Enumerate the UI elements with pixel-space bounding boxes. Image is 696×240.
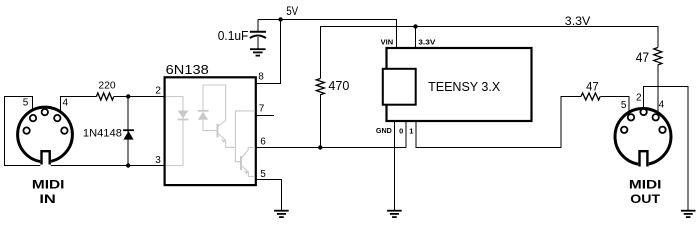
svg-text:3: 3 bbox=[155, 155, 161, 166]
connector J2 MIDI OUT bbox=[615, 92, 671, 206]
svg-text:4: 4 bbox=[659, 99, 665, 110]
internal Vcc rail bbox=[203, 85, 226, 120]
microcontroller U2 TEENSY 3.X bbox=[376, 38, 532, 136]
svg-text:MIDI: MIDI bbox=[32, 177, 65, 191]
svg-text:0.1uF: 0.1uF bbox=[218, 29, 249, 43]
svg-text:47: 47 bbox=[586, 80, 599, 94]
node junction 3.3V/Teensy bbox=[413, 24, 417, 28]
svg-text:5: 5 bbox=[260, 169, 266, 180]
svg-text:220: 220 bbox=[98, 80, 115, 92]
resistor R1 220 bbox=[96, 93, 113, 100]
svg-text:GND: GND bbox=[376, 126, 393, 135]
resistor R3 47 series TX bbox=[581, 93, 600, 100]
wire R470 bottom to pin6 net bbox=[319, 95, 321, 148]
svg-text:2: 2 bbox=[636, 92, 642, 103]
wire 6N138 pin7 stub bbox=[257, 115, 274, 117]
svg-text:OUT: OUT bbox=[630, 192, 660, 206]
ground under capacitor bbox=[250, 49, 266, 55]
ground bottom right bbox=[681, 211, 696, 217]
wire R47 pullup bottom to MIDI-OUT pin4 bbox=[657, 65, 659, 113]
pin holes bbox=[23, 109, 67, 134]
wire diode branch vertical bbox=[127, 97, 129, 166]
svg-text:470: 470 bbox=[328, 79, 349, 93]
svg-text:2: 2 bbox=[155, 86, 161, 97]
wire 3.3V rail bbox=[320, 27, 658, 79]
wire Teensy GND pin to ground bbox=[393, 121, 395, 210]
wire 5V rail bbox=[258, 20, 397, 49]
svg-text:6N138: 6N138 bbox=[166, 62, 209, 77]
svg-text:3.3V: 3.3V bbox=[565, 14, 591, 28]
svg-text:7: 7 bbox=[259, 104, 265, 115]
transistor Q1 bbox=[217, 124, 219, 138]
svg-text:3.3V: 3.3V bbox=[418, 38, 435, 47]
node junction diode bottom bbox=[126, 163, 130, 167]
svg-text:0: 0 bbox=[399, 127, 403, 136]
diode D1 1N4148 bbox=[83, 128, 134, 140]
connector J1 MIDI IN bbox=[18, 98, 73, 207]
ground under 6N138 pin5 bbox=[274, 211, 289, 217]
svg-text:5: 5 bbox=[621, 100, 627, 111]
ground under Teensy GND bbox=[387, 211, 402, 217]
svg-text:VIN: VIN bbox=[381, 38, 394, 47]
wire Teensy 3.3V pin riser bbox=[415, 27, 417, 49]
6N138 internals (gray) bbox=[166, 85, 255, 177]
node junction 5V/pin8 bbox=[278, 17, 282, 21]
wire Teensy pin1 TX to R47 bbox=[416, 97, 581, 148]
wire MIDI-IN pin4 riser bbox=[61, 97, 97, 112]
USB connector square bbox=[383, 69, 416, 105]
svg-text:IN: IN bbox=[39, 192, 56, 206]
pin7 internal wire bbox=[235, 111, 255, 162]
node junction diode top bbox=[126, 94, 130, 98]
wire R47 to MIDI-OUT pin5 bbox=[600, 97, 629, 113]
wire 6N138 pin5 to ground bbox=[257, 180, 282, 211]
svg-text:1N4148: 1N4148 bbox=[83, 128, 122, 140]
photodiode wires bbox=[202, 85, 204, 110]
notch bbox=[638, 152, 648, 168]
node junction R470/pin6 bbox=[318, 145, 322, 149]
wire capacitor top stub bbox=[257, 20, 259, 32]
svg-text:4: 4 bbox=[63, 98, 69, 109]
transistor Q2 bbox=[240, 156, 242, 170]
svg-text:47: 47 bbox=[636, 50, 649, 65]
svg-text:6: 6 bbox=[260, 137, 266, 148]
wire MIDI-IN pin5 to ground loop bbox=[5, 97, 164, 166]
internal LED wires bbox=[166, 97, 183, 166]
resistor R2 470 bbox=[316, 79, 324, 95]
wire Teensy pin0 riser bbox=[405, 121, 407, 148]
photodiode symbol bbox=[198, 110, 209, 112]
svg-text:5V: 5V bbox=[286, 6, 298, 18]
internal LED symbol bbox=[178, 111, 189, 119]
notch bbox=[40, 152, 51, 167]
svg-text:5: 5 bbox=[23, 98, 29, 109]
svg-text:MIDI: MIDI bbox=[629, 177, 662, 191]
wire 6N138 pin6 to Teensy pin0 bbox=[257, 147, 406, 149]
capacitor C1 0.1uF bbox=[218, 29, 266, 43]
wire 6N138 pin8 to 5V node bbox=[257, 20, 281, 84]
wire R220 to 6N138 pin2 bbox=[114, 96, 164, 98]
svg-text:TEENSY 3.X: TEENSY 3.X bbox=[428, 79, 500, 94]
wire capacitor bottom stub bbox=[257, 37, 259, 49]
svg-text:1: 1 bbox=[409, 127, 413, 136]
wire MIDI-OUT pin2 to ground bbox=[643, 87, 688, 211]
resistor R4 47 pullup bbox=[654, 48, 662, 65]
optocoupler U1 6N138 box bbox=[155, 62, 266, 185]
pin holes bbox=[621, 109, 666, 133]
svg-text:8: 8 bbox=[258, 72, 264, 83]
